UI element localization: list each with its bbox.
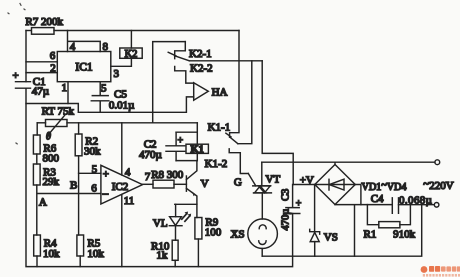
wire R2 top [78, 123, 80, 134]
capacitor C5 [91, 82, 109, 113]
capacitor C3 [285, 185, 300, 214]
svg-text:470µ: 470µ [281, 209, 292, 231]
resistor R3 [33, 164, 40, 185]
relay coil K2 [130, 31, 132, 49]
wire R9 to ground rail [197, 239, 199, 267]
svg-text:VL: VL [153, 217, 168, 229]
wire K2 contact loop left side [153, 42, 186, 123]
socket XS [248, 219, 278, 249]
wire R5 to ground rail [79, 256, 81, 267]
svg-text:10k: 10k [87, 248, 104, 260]
watermark logo [421, 266, 460, 277]
wire IC1 pins 4 and 8 to top rail [68, 31, 101, 52]
wire IC2 pin 5 [79, 172, 101, 174]
svg-text:V: V [201, 178, 209, 190]
terminal ~220V bottom [434, 203, 439, 208]
wire gate G to triac [248, 174, 256, 186]
op-amp timer IC1 [57, 52, 111, 82]
zener diode VS [314, 185, 316, 232]
transistor V [185, 176, 187, 191]
thermistor RT [37, 122, 45, 124]
svg-text:K1-2: K1-2 [205, 158, 228, 170]
svg-text:3: 3 [114, 68, 120, 80]
svg-text:R8 300: R8 300 [151, 169, 184, 181]
diode bridge VD1~VD4 [315, 165, 355, 205]
resistor R8 [153, 180, 174, 188]
svg-text:+: + [103, 169, 109, 181]
svg-text:C3: C3 [281, 189, 292, 201]
wire triac to XS socket [261, 193, 263, 219]
svg-text:G: G [234, 177, 242, 189]
svg-text:VD1~VD4: VD1~VD4 [362, 180, 407, 193]
resistor R6 [33, 135, 40, 154]
resistor R7 [26, 30, 31, 32]
wire VL to R10 [175, 226, 177, 241]
resistor R4 [34, 235, 41, 256]
svg-text:IC2: IC2 [112, 181, 129, 193]
svg-text:30k: 30k [84, 146, 101, 158]
wire R3 to node A and R4 [37, 185, 101, 235]
wire IC1 pin 1 to W1 [67, 82, 69, 104]
svg-text:+V: +V [300, 175, 314, 187]
svg-text:100: 100 [205, 227, 222, 239]
svg-text:470µ: 470µ [139, 149, 162, 161]
svg-text:C4: C4 [371, 193, 384, 205]
svg-text:VT: VT [266, 174, 281, 186]
svg-text:IC1: IC1 [75, 62, 93, 74]
svg-text:1: 1 [62, 82, 68, 94]
wire bridge right vertex up-over [355, 185, 361, 205]
terminal ~220V top [435, 160, 440, 165]
svg-text:800: 800 [43, 153, 60, 165]
op-amp IC2 [101, 165, 143, 204]
wire R10 to ground rail [174, 260, 176, 266]
resistor R9 [195, 218, 202, 240]
svg-text:R1: R1 [364, 229, 377, 241]
svg-text:~220V: ~220V [423, 178, 453, 192]
resistor R1 loop [367, 205, 410, 225]
wire IC1 pin 2 [26, 72, 57, 74]
svg-text:0.01µ: 0.01µ [109, 100, 135, 112]
svg-text:47µ: 47µ [32, 86, 49, 98]
wire left rail (upper, above C1) [25, 31, 27, 82]
wire W2: +V rail from RT right to K1 loop [67, 122, 197, 124]
relay contact K2-1 [175, 42, 186, 59]
svg-text:5: 5 [101, 83, 107, 95]
wire +V node to bridge left vertex [293, 184, 315, 186]
svg-text:1k: 1k [156, 250, 168, 262]
svg-text:K1: K1 [190, 144, 203, 155]
LED VL [175, 204, 177, 216]
relay contact K2-2 [175, 67, 194, 84]
wire IC2 output pin 7 [143, 183, 154, 185]
svg-text:HA: HA [212, 87, 228, 99]
svg-text:θ: θ [46, 132, 51, 143]
svg-text:+: + [13, 70, 19, 82]
wire R8 to V base [174, 183, 186, 185]
svg-text:29k: 29k [43, 176, 60, 188]
wire K1-1 blade to K2-1 output wire [238, 61, 252, 144]
svg-text:A: A [39, 197, 47, 209]
wire R4 to ground rail [36, 256, 38, 267]
wire R6-R3 [36, 154, 38, 164]
svg-text:910k: 910k [393, 229, 416, 241]
svg-text:11: 11 [124, 195, 135, 207]
wire W1: left rail to HA bottom input [26, 97, 194, 112]
resistor R2 [75, 134, 82, 156]
wire IC1 pin 6 [26, 61, 57, 63]
wire K1 coil loop from +V rail [176, 123, 197, 161]
svg-text:+: + [178, 136, 184, 147]
svg-text:VS: VS [324, 232, 338, 244]
wire V emitter node to R9 and VL branch [175, 204, 197, 217]
relay contact K1-2 [229, 149, 248, 174]
svg-text:XS: XS [231, 229, 245, 241]
svg-text:K1-1: K1-1 [208, 122, 231, 134]
capacitor C4 [392, 198, 398, 213]
wire AC bottom rail [262, 205, 422, 257]
wire C4 right to terminal [399, 204, 435, 206]
wire XS bottom to AC rail [261, 249, 263, 257]
wire IC2 pin 11 to ground [121, 195, 123, 267]
capacitor C2 [166, 132, 185, 160]
relay contact K1-1 from top rail [230, 31, 239, 138]
wire bridge bottom vertex to C4 line and AC rail drop [335, 205, 392, 257]
svg-text:R7 200k: R7 200k [25, 16, 63, 28]
resistor R10 [172, 240, 178, 260]
buzzer HA [194, 83, 209, 100]
wire node B vertical [78, 156, 80, 235]
wire left rail (lower, below C1) + bottom ground rail + C3 bottom stem [26, 88, 293, 266]
wire from K2-1 output down to +V node [262, 61, 293, 185]
capacitor C1 [16, 82, 31, 89]
stray specks [8, 4, 25, 144]
resistor R5 [77, 235, 84, 256]
wire RT to R6 [36, 123, 38, 135]
wire K2 to IC1 pin 3 [111, 58, 132, 66]
svg-text:+: + [296, 199, 302, 210]
svg-text:B: B [70, 180, 77, 192]
svg-text:6: 6 [50, 50, 56, 62]
wire top AC line [262, 161, 435, 163]
svg-text:RT 75k: RT 75k [42, 106, 75, 118]
svg-text:−: − [102, 187, 109, 201]
svg-text:7: 7 [145, 171, 151, 183]
svg-text:K2-1: K2-1 [189, 48, 212, 60]
triac VT [253, 186, 272, 193]
wire triac top [261, 162, 263, 186]
wire IC2 pin 4 to +V rail [121, 123, 123, 175]
svg-text:4: 4 [125, 167, 131, 179]
svg-text:2: 2 [50, 62, 56, 74]
svg-text:10k: 10k [43, 248, 60, 260]
svg-text:K2-2: K2-2 [190, 63, 213, 75]
svg-text:6: 6 [91, 182, 97, 194]
svg-text:5: 5 [92, 163, 98, 175]
relay coil K1 [186, 144, 208, 153]
wire K2-1 output to right [189, 60, 262, 62]
